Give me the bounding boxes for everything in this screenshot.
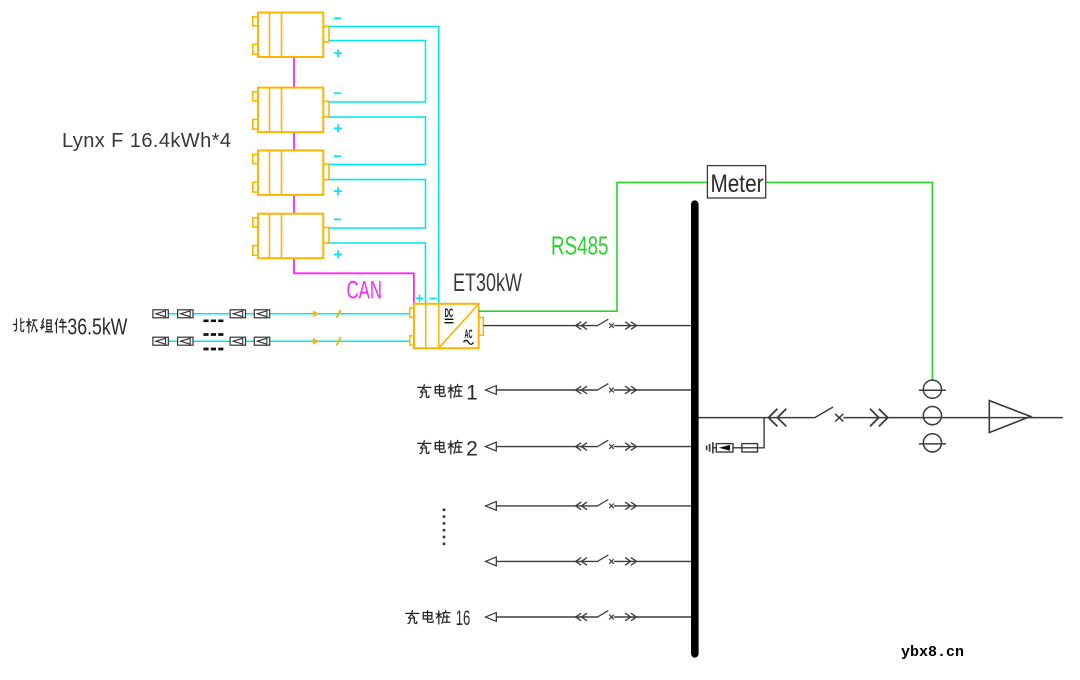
svg-text:2: 2 (466, 438, 478, 461)
PV module PV1-4 (254, 310, 269, 318)
wire PV string 2 (cyan) (168, 340, 409, 342)
battery B2 (253, 88, 342, 133)
breaker QF1 (576, 384, 637, 394)
PV module PV1-3 (230, 310, 245, 318)
wire fuse to SPD (733, 447, 742, 449)
breaker QF4 (576, 555, 637, 565)
arrow charging pile feeder 3 (486, 502, 497, 511)
arrow charging pile 1 (486, 386, 497, 395)
svg-text:Meter: Meter (711, 170, 764, 198)
svg-text:DC: DC (445, 308, 454, 320)
CT coil middle (on line) (923, 407, 941, 425)
label inverter plus terminal (416, 295, 424, 303)
PV module PV1-1 (153, 310, 168, 318)
svg-text:36.5kW: 36.5kW (67, 314, 127, 340)
svg-text:AC: AC (465, 329, 473, 341)
battery B1 (253, 13, 342, 58)
wire RS485 inverter to Meter (green) (479, 182, 708, 311)
connector arrow PV string 1 (orange) (313, 310, 319, 317)
wire SPD to ground (713, 447, 716, 449)
PV module PV2-1 (153, 337, 168, 345)
PV module PV2-4 (254, 337, 269, 345)
svg-text:RS485: RS485 (551, 231, 609, 261)
ground symbol (707, 442, 713, 453)
battery B4 (253, 214, 342, 259)
wire battery B3 plus to B4 minus (329, 180, 426, 228)
busbar (AC bus) (691, 204, 699, 654)
fuse mark PV string 2 (orange slash) (337, 337, 341, 345)
breaker QF2 (576, 440, 637, 450)
wire PV string 1 (cyan) (168, 313, 409, 315)
wire charging pile 2 feeder (496, 446, 691, 448)
breaker QF-grid chevrons right (870, 409, 888, 427)
label 充电桩 1 (418, 382, 478, 405)
label 充电桩 16 (406, 607, 471, 630)
surge arrester SPD (716, 444, 733, 452)
wire CAN bus (magenta) from battery stack to inverter (294, 57, 414, 304)
label 充电桩 2 (418, 438, 478, 461)
arrow charging pile 16 (486, 613, 497, 622)
svg-text:CAN: CAN (347, 276, 383, 304)
arrow charging pile 2 (486, 442, 497, 451)
connector arrow PV string 2 (orange) (313, 338, 319, 345)
wire battery B1 plus to B2 minus (329, 41, 426, 103)
CT coil top (with strike line) (919, 380, 946, 398)
breaker QF3 (576, 500, 637, 510)
wire inverter AC output to busbar (483, 325, 691, 327)
PV module PV2-3 (230, 337, 245, 345)
breaker QF-grid x mark (835, 414, 843, 422)
wire charging pile feeder 3 (unlabeled) (496, 505, 691, 507)
wire SPD branch vertical (758, 418, 765, 448)
PV module PV1-2 (178, 310, 193, 318)
wire charging pile feeder 4 (unlabeled) (496, 560, 691, 562)
fuse F1 (742, 444, 758, 452)
isolator blade (grid breaker) (814, 407, 833, 418)
meter M1 (707, 166, 765, 198)
label 北极组件36.5kW (PV array label) (13, 314, 127, 340)
ellipsis dashes PV row 2 (203, 348, 223, 351)
transformer / grid triangle (989, 401, 1030, 433)
ellipsis dashes PV row 1 (203, 319, 223, 322)
fuse mark PV string 1 (orange slash) (337, 310, 341, 318)
wire battery B2 plus to B3 minus (329, 117, 426, 164)
ellipsis dots (more charging piles) (443, 509, 446, 546)
breaker QF16 (576, 611, 637, 621)
PV module PV2-2 (178, 337, 193, 345)
ellipsis dashes PV middle (203, 333, 223, 336)
wire battery B4 plus to inverter plus (329, 243, 426, 304)
wire charging pile 1 feeder (496, 389, 691, 391)
svg-text:ET30kW: ET30kW (453, 269, 522, 297)
battery B3 (253, 150, 342, 195)
inverter U1 ET30kW (410, 304, 484, 348)
wire charging pile 16 feeder (496, 616, 691, 618)
wire battery B1 minus to inverter minus (cyan) (329, 27, 439, 304)
svg-text:Lynx F 16.4kWh*4: Lynx F 16.4kWh*4 (62, 130, 231, 152)
CT coil bottom (with strike line) (919, 434, 946, 452)
breaker QF0 (inverter AC) (576, 319, 637, 329)
arrow charging pile feeder 4 (486, 557, 497, 566)
svg-text:ybx8.cn: ybx8.cn (901, 644, 964, 661)
breaker QF-grid chevrons left (769, 409, 787, 427)
svg-text:16: 16 (456, 607, 471, 630)
wire RS485 Meter to CT (green) (766, 182, 933, 380)
svg-text:1: 1 (466, 382, 478, 405)
label inverter minus terminal (430, 297, 437, 299)
wire grid connection line (699, 417, 1063, 419)
